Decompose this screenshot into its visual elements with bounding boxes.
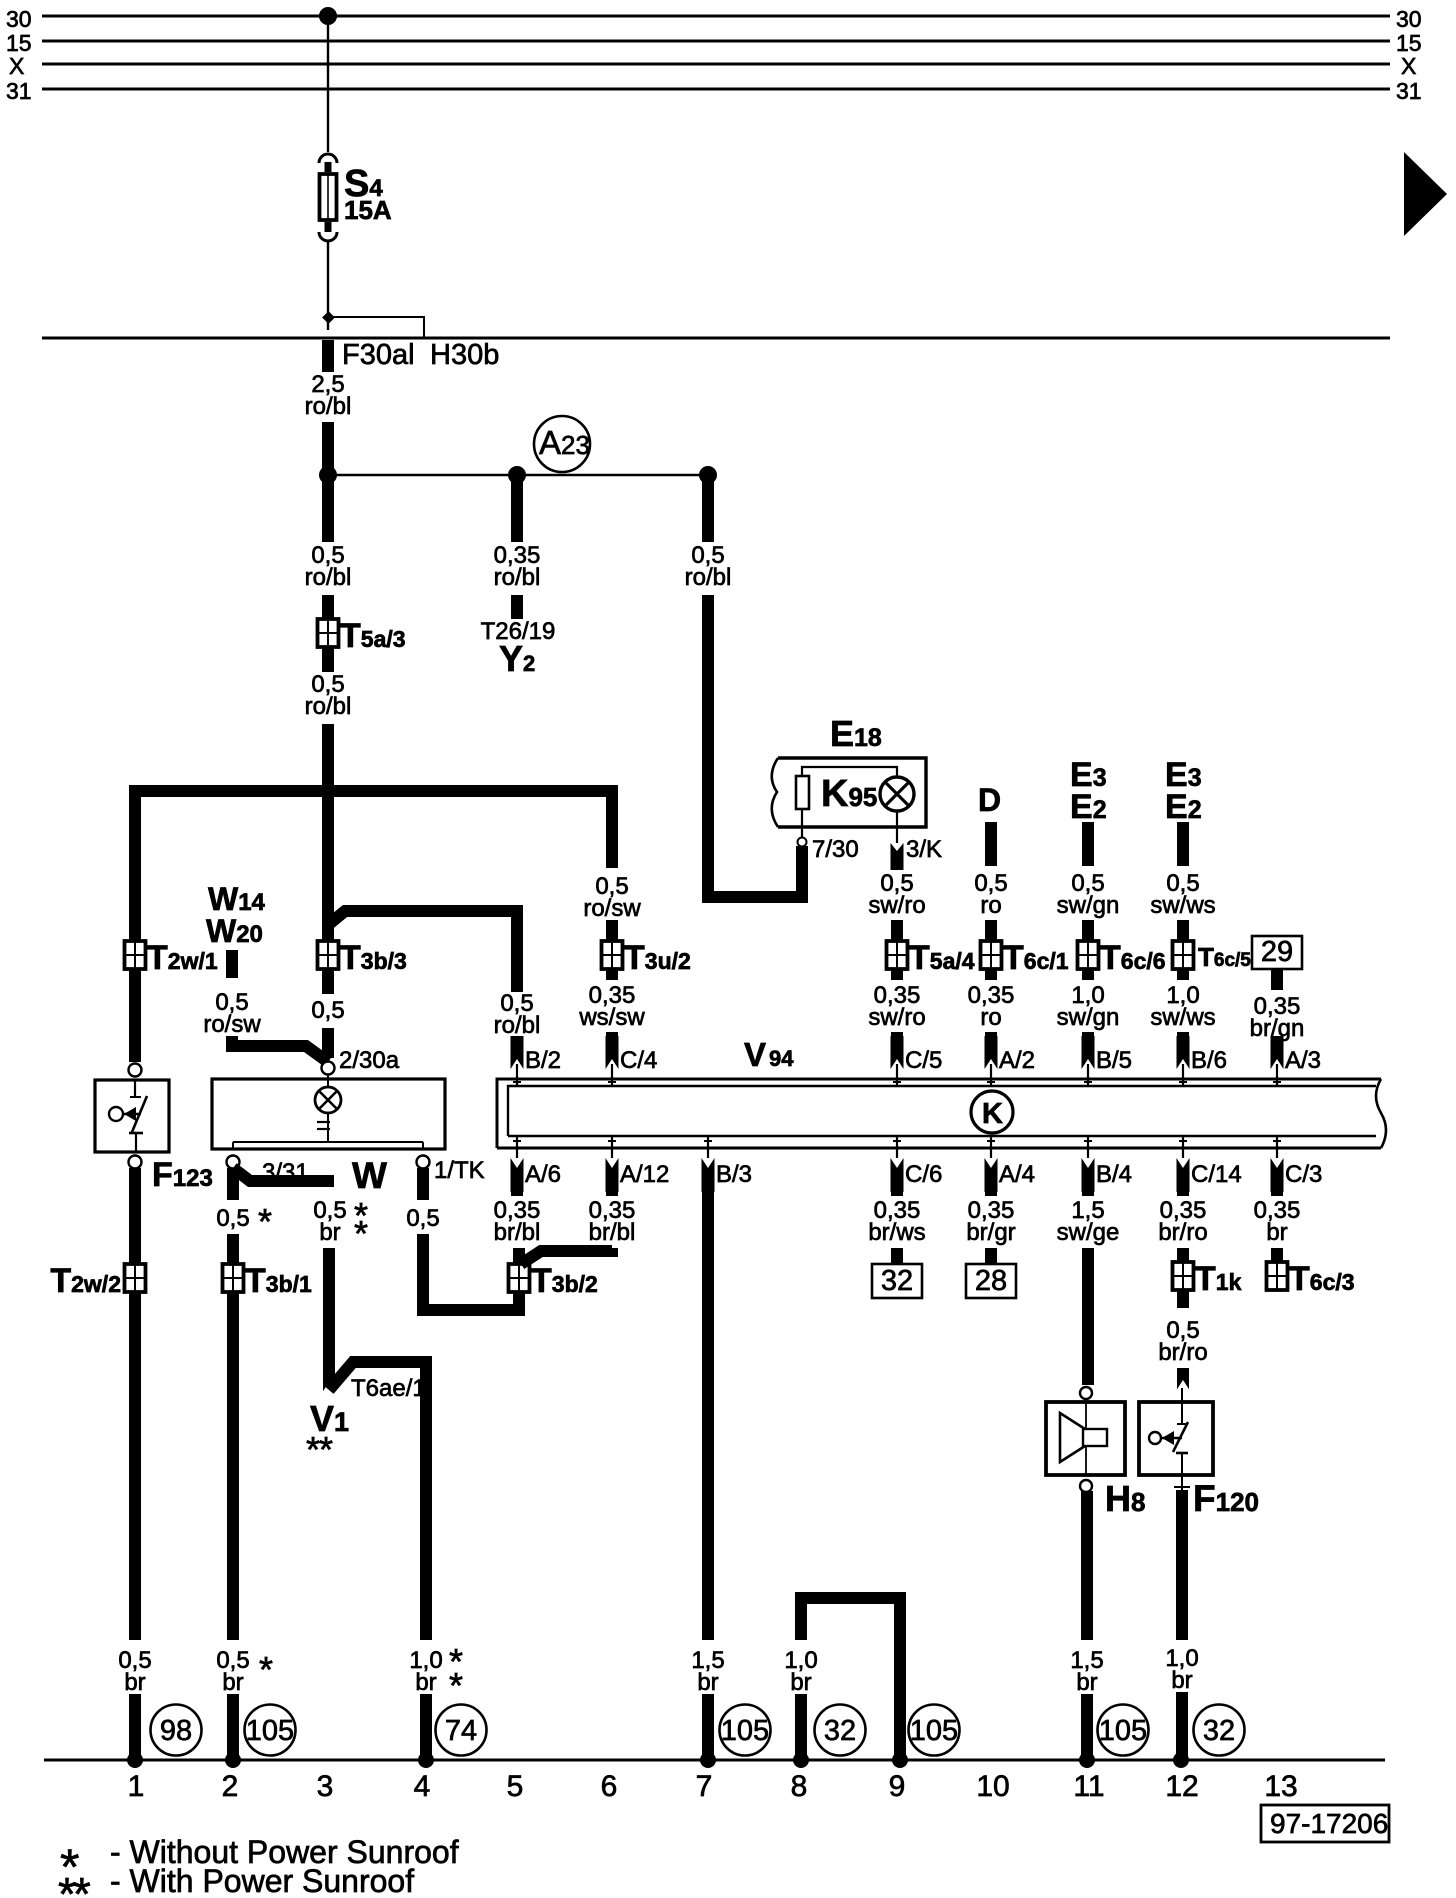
svg-text:105: 105	[1099, 1715, 1147, 1747]
wire to ground 1	[129, 1694, 141, 1760]
wire label 0,35 br/ws	[868, 1197, 925, 1246]
lamp unit W box	[212, 1079, 445, 1196]
svg-text:A/4: A/4	[999, 1161, 1035, 1188]
junction	[508, 466, 526, 484]
node line A23	[328, 474, 708, 476]
wire 2,5 ro/bl	[322, 422, 334, 475]
svg-text:5: 5	[507, 1770, 524, 1803]
wire A/4	[985, 1192, 997, 1196]
svg-text:0,5: 0,5	[311, 997, 344, 1024]
connector T6c/6	[1078, 939, 1166, 977]
wire 0,5 ro/bl	[322, 475, 334, 542]
wire	[322, 1028, 334, 1058]
wire W14/W20 stub	[226, 950, 238, 978]
svg-text:br/gr: br/gr	[966, 1219, 1015, 1246]
pin 3/K	[891, 811, 943, 870]
wire stub	[1177, 1290, 1189, 1308]
wire ground 8 to 9	[801, 1598, 900, 1760]
legend	[58, 1834, 459, 1898]
bus line 15	[6, 30, 1422, 56]
wire label 1,5 br	[1070, 1647, 1103, 1696]
wire label 0,5 br	[313, 1195, 368, 1254]
svg-text:*: *	[354, 1213, 368, 1254]
ground destination 105	[245, 1705, 296, 1756]
V94 pin C/14	[1177, 1136, 1242, 1192]
V94 pin A/3	[1271, 1036, 1322, 1086]
connector T6ae/1	[323, 1375, 426, 1402]
svg-text:C/6: C/6	[905, 1161, 942, 1188]
svg-text:A/12: A/12	[620, 1161, 669, 1188]
svg-text:B/2: B/2	[525, 1047, 561, 1074]
wire 0,5 ro/bl	[702, 475, 714, 542]
svg-text:*: *	[259, 1649, 273, 1690]
wire label 0,5 ro/sw	[203, 989, 261, 1038]
terminal numbers	[128, 1770, 1298, 1803]
wire label 0,5 br	[216, 1647, 273, 1696]
ground destination 98	[151, 1705, 202, 1756]
svg-text:8: 8	[791, 1770, 808, 1803]
node below fuse	[322, 311, 335, 324]
wire	[1177, 920, 1189, 947]
ground rail	[44, 1759, 1385, 1762]
svg-text:K: K	[982, 1098, 1003, 1130]
wire stub to Y2	[511, 595, 523, 619]
label E3 E2	[1165, 756, 1202, 826]
svg-text:30: 30	[1396, 6, 1422, 32]
connector T6c/5	[1173, 941, 1252, 972]
svg-text:C/4: C/4	[620, 1047, 657, 1074]
wire label 0,5 br	[118, 1647, 151, 1696]
svg-text:sw/gn: sw/gn	[1057, 1004, 1120, 1031]
wire 0,5 ro/bl	[322, 647, 334, 672]
svg-text:2: 2	[222, 1770, 239, 1803]
svg-text:br/ro: br/ro	[1158, 1219, 1207, 1246]
wire label 0,35 ro/bl	[494, 542, 541, 591]
wire label 1,0 sw/gn	[1057, 982, 1120, 1031]
wire stub	[985, 969, 997, 980]
wire label 0,5	[406, 1205, 439, 1232]
svg-text:31: 31	[1396, 78, 1422, 104]
svg-text:32: 32	[1203, 1715, 1235, 1747]
label E3 E2	[1070, 756, 1107, 826]
connector T2w/1	[125, 939, 218, 977]
svg-text:- With Power Sunroof: - With Power Sunroof	[110, 1863, 414, 1898]
wire	[1271, 1038, 1283, 1042]
illumination unit E18	[772, 713, 926, 827]
wire label 1,0 sw/ws	[1150, 982, 1215, 1031]
junction on bus 30	[319, 7, 337, 25]
wire label 0,35 ro	[968, 982, 1015, 1031]
svg-text:0,5: 0,5	[216, 1205, 249, 1232]
svg-text:br: br	[415, 1669, 436, 1696]
svg-text:X: X	[1401, 53, 1416, 79]
ground junction pin	[700, 1752, 716, 1768]
svg-text:ro: ro	[980, 1004, 1001, 1031]
bus line 31	[6, 78, 1422, 104]
wire label 0,5 sw/gn	[1057, 870, 1120, 919]
wire label 0,35 br/ro	[1158, 1197, 1207, 1246]
wire label 1,0 br	[784, 1647, 817, 1696]
wire label 0,5 ro/sw	[583, 873, 641, 922]
wire stub	[606, 969, 618, 980]
svg-text:A/2: A/2	[999, 1047, 1035, 1074]
junction	[699, 466, 717, 484]
svg-text:3: 3	[317, 1770, 334, 1803]
svg-text:B/4: B/4	[1096, 1161, 1132, 1188]
ground destination 32	[1194, 1705, 1245, 1756]
V94 pin A/12	[606, 1136, 670, 1192]
svg-text:30: 30	[6, 6, 32, 32]
ground junction pin	[1173, 1752, 1189, 1768]
pin 2/30a	[322, 1047, 400, 1075]
switch F120	[1139, 1380, 1259, 1519]
svg-text:7: 7	[696, 1770, 713, 1803]
connector T3u/2	[602, 939, 691, 977]
svg-text:H30b: H30b	[430, 339, 499, 371]
wire label 0,5 sw/ro	[868, 870, 925, 919]
branch to B/2	[328, 911, 517, 992]
wire stub	[1082, 969, 1094, 980]
svg-text:br: br	[319, 1219, 340, 1246]
svg-text:15A: 15A	[344, 195, 392, 225]
wire	[891, 1032, 903, 1038]
wire	[322, 724, 334, 947]
wire to T6ae/1	[323, 1248, 335, 1392]
internal wire	[802, 767, 897, 778]
ground junction pin	[892, 1752, 908, 1768]
svg-text:105: 105	[246, 1715, 294, 1747]
wire	[129, 969, 141, 1062]
svg-text:3/K: 3/K	[906, 836, 942, 863]
wire	[1081, 1694, 1093, 1760]
lamp K95	[821, 773, 914, 815]
svg-text:ro/sw: ro/sw	[203, 1011, 261, 1038]
wire A/6 down	[511, 1192, 523, 1196]
wire	[227, 1234, 239, 1640]
pin 3/31	[227, 1156, 309, 1187]
svg-text:B/3: B/3	[716, 1161, 752, 1188]
wire label 0,5 ro/bl	[305, 671, 352, 720]
wire F123 to T2w/2	[129, 1168, 141, 1640]
svg-text:C/3: C/3	[1285, 1161, 1322, 1188]
wire label 0,35 ws/sw	[578, 982, 645, 1031]
wire label 0,35 br	[1254, 1197, 1301, 1246]
pin 1/TK	[417, 1156, 485, 1185]
node 29	[1252, 936, 1302, 969]
V94 pin C/4	[606, 1036, 658, 1086]
wire 0,5 * down	[227, 1168, 239, 1200]
wire	[1082, 920, 1094, 947]
svg-text:br/bl: br/bl	[589, 1219, 636, 1246]
V94 pin C/5	[891, 1036, 943, 1086]
svg-text:105: 105	[910, 1715, 958, 1747]
svg-text:74: 74	[445, 1715, 477, 1747]
svg-text:br/bl: br/bl	[494, 1219, 541, 1246]
svg-text:br: br	[697, 1669, 718, 1696]
svg-text:ws/sw: ws/sw	[578, 1004, 645, 1031]
wire to ground 4	[420, 1694, 432, 1760]
wire label 0,5 br/ro	[1158, 1317, 1207, 1366]
label T26/19 Y2	[481, 618, 556, 679]
svg-text:ro/sw: ro/sw	[583, 895, 641, 922]
svg-text:sw/ro: sw/ro	[868, 1004, 925, 1031]
svg-text:br: br	[790, 1669, 811, 1696]
ground destination 105	[909, 1705, 960, 1756]
wire label 0,5 ro/bl	[685, 542, 732, 591]
drawing number 97-17206	[1261, 1805, 1389, 1842]
wire fuse to node	[327, 240, 329, 330]
svg-text:0,5: 0,5	[406, 1205, 439, 1232]
svg-text:D: D	[978, 782, 1001, 818]
wire label 1,5 br	[691, 1647, 724, 1696]
wire	[891, 1248, 903, 1264]
svg-text:br: br	[222, 1669, 243, 1696]
svg-text:A/3: A/3	[1285, 1047, 1321, 1074]
svg-text:32: 32	[881, 1265, 913, 1297]
svg-text:br: br	[1266, 1219, 1287, 1246]
wire	[322, 595, 334, 627]
svg-text:97-17206: 97-17206	[1270, 1808, 1388, 1839]
svg-text:sw/ge: sw/ge	[1057, 1219, 1120, 1246]
node 32	[872, 1264, 922, 1298]
bus line F30al/H30b	[42, 338, 1390, 371]
wire stub	[1177, 969, 1189, 980]
branch 0,5 br **	[233, 1168, 334, 1181]
wire stub	[891, 969, 903, 980]
V94 pin A/4	[985, 1136, 1036, 1192]
wire label 0,35 br/gr	[966, 1197, 1015, 1246]
horn H8	[1046, 1387, 1145, 1519]
ground destination 32	[815, 1705, 866, 1756]
svg-text:ro/bl: ro/bl	[305, 564, 352, 591]
wire	[985, 920, 997, 947]
wire	[606, 920, 618, 947]
svg-text:4: 4	[414, 1770, 431, 1803]
wire stub	[1271, 969, 1283, 990]
svg-text:ro: ro	[980, 892, 1001, 919]
wire 0,35 ro/bl	[511, 475, 523, 542]
V94 pin B/2	[511, 1036, 562, 1086]
fuse S4 15A	[319, 154, 392, 241]
connector T3b/1	[223, 1262, 313, 1300]
svg-text:sw/ws: sw/ws	[1150, 1004, 1215, 1031]
svg-text:**: **	[58, 1868, 91, 1898]
switch F123	[95, 1064, 213, 1195]
V94 pin C/6	[891, 1136, 943, 1192]
dashed branch to H30b	[328, 317, 424, 337]
svg-text:7/30: 7/30	[812, 836, 859, 863]
svg-text:31: 31	[6, 78, 32, 104]
svg-text:12: 12	[1165, 1770, 1198, 1803]
wire label 0,35 br/bl	[589, 1197, 636, 1246]
V94 pin B/6	[1177, 1036, 1228, 1086]
svg-text:ro/bl: ro/bl	[494, 564, 541, 591]
svg-text:105: 105	[721, 1715, 769, 1747]
svg-text:ro/bl: ro/bl	[494, 1012, 541, 1039]
wire label 0,5 ro/bl	[494, 990, 541, 1039]
connector T6c/1	[981, 939, 1069, 977]
wire	[606, 1032, 618, 1038]
wire label 0,5	[216, 1201, 272, 1242]
ground junction pin	[793, 1752, 809, 1768]
svg-text:*: *	[449, 1665, 463, 1706]
wire	[1082, 1032, 1094, 1038]
wire 2,5 ro/bl stub	[322, 340, 334, 372]
wire	[891, 920, 903, 947]
svg-text:X: X	[9, 53, 24, 79]
connector T6c/3	[1267, 1260, 1355, 1298]
svg-text:29: 29	[1261, 936, 1293, 968]
svg-text:br/ws: br/ws	[868, 1219, 925, 1246]
ground destination 105	[720, 1705, 771, 1756]
V94 pin A/6	[511, 1136, 562, 1192]
bus line X	[9, 53, 1416, 79]
connector T3b/2	[509, 1262, 598, 1300]
node label A23	[534, 416, 590, 472]
junction	[319, 466, 337, 484]
connector T2w/2	[50, 1262, 145, 1300]
V94 pin B/4	[1082, 1136, 1133, 1192]
wire label 0,35 br/bl	[494, 1197, 541, 1246]
svg-text:6: 6	[601, 1770, 618, 1803]
pin 7/30	[798, 809, 859, 863]
wire label 2,5 ro/bl	[305, 371, 352, 420]
wire	[1177, 1032, 1189, 1038]
wire to H8	[1082, 1248, 1094, 1385]
svg-text:B/5: B/5	[1096, 1047, 1132, 1074]
svg-text:2/30a: 2/30a	[339, 1047, 400, 1074]
wire	[985, 1248, 997, 1264]
wire stub	[1082, 822, 1094, 866]
svg-text:T6ae/1: T6ae/1	[351, 1375, 426, 1402]
svg-text:1/TK: 1/TK	[434, 1157, 485, 1184]
wire	[1177, 1248, 1189, 1264]
svg-text:ro/bl: ro/bl	[305, 693, 352, 720]
distribution wire	[135, 791, 612, 947]
ground junction pin	[418, 1752, 434, 1768]
wire to F120	[1177, 1368, 1189, 1390]
svg-text:sw/gn: sw/gn	[1057, 892, 1120, 919]
ground junction pin	[225, 1752, 241, 1768]
V94 pin B/5	[1082, 1036, 1133, 1086]
wire 1/TK	[417, 1168, 429, 1200]
wire label 0,5 sw/ws	[1150, 870, 1215, 919]
svg-text:11: 11	[1073, 1770, 1104, 1803]
svg-text:*: *	[258, 1201, 272, 1242]
wire label 0,5 ro/bl	[305, 542, 352, 591]
svg-text:sw/ro: sw/ro	[868, 892, 925, 919]
wire label 1,0 br	[409, 1641, 463, 1706]
wire stub	[1177, 822, 1189, 866]
svg-text:98: 98	[160, 1715, 192, 1747]
svg-text:br: br	[1076, 1669, 1097, 1696]
label V1	[306, 1398, 349, 1470]
wire label 0,35 br/gn	[1250, 993, 1305, 1042]
V94 pin C/3	[1271, 1136, 1323, 1192]
wire label 1,0 br	[1165, 1645, 1198, 1694]
V94 relay symbol K	[971, 1091, 1013, 1133]
wire label 1,5 sw/ge	[1057, 1197, 1120, 1246]
svg-text:A23: A23	[539, 424, 590, 461]
wire to K95 pin 7/30	[708, 595, 802, 897]
wire F120 to ground 12	[1176, 1490, 1188, 1640]
wire A/12 down	[606, 1192, 618, 1196]
connector T3b/3	[318, 939, 407, 977]
wire V1 feed	[329, 1362, 426, 1640]
ground junction pin	[1079, 1752, 1095, 1768]
svg-text:W: W	[352, 1155, 387, 1196]
wire 0,5	[322, 969, 334, 994]
ground junction pin	[127, 1752, 143, 1768]
lamp in W	[315, 1074, 341, 1143]
bus line 30	[6, 6, 1422, 32]
wire	[985, 1032, 997, 1038]
control module V94	[497, 1036, 1386, 1148]
svg-text:F30al: F30al	[342, 339, 415, 371]
wire	[423, 1234, 519, 1310]
wire elbow to T3b/2	[521, 1248, 612, 1264]
wire C/6	[891, 1192, 903, 1196]
connector T5a/3	[318, 617, 406, 655]
continuation arrow	[1404, 152, 1447, 236]
V94 pin B/3	[702, 1136, 753, 1192]
V94 pin A/2	[985, 1036, 1036, 1086]
wire label 0,5	[311, 997, 344, 1024]
wire C/3	[1271, 1192, 1283, 1196]
wire to ground 2	[227, 1694, 239, 1760]
wire B/3 to ground 7	[702, 1190, 714, 1640]
connector T5a/4	[887, 939, 975, 977]
svg-text:9: 9	[889, 1770, 906, 1803]
wire to 2/30a	[232, 1036, 328, 1062]
wire H8 to ground 11	[1081, 1491, 1093, 1640]
ground destination 74	[436, 1705, 487, 1756]
svg-text:28: 28	[975, 1265, 1007, 1297]
wire B/4	[1082, 1192, 1094, 1196]
svg-text:br/ro: br/ro	[1158, 1339, 1207, 1366]
svg-text:**: **	[306, 1429, 333, 1470]
svg-text:10: 10	[976, 1770, 1009, 1803]
svg-text:C/14: C/14	[1191, 1161, 1242, 1188]
ground destination 105	[1098, 1705, 1149, 1756]
wire to T3b/2	[513, 1248, 525, 1264]
svg-text:sw/ws: sw/ws	[1150, 892, 1215, 919]
svg-text:32: 32	[824, 1715, 856, 1747]
wire D stub	[985, 822, 997, 866]
svg-text:br: br	[124, 1669, 145, 1696]
wire	[1176, 1692, 1188, 1760]
svg-text:ro/bl: ro/bl	[685, 564, 732, 591]
svg-text:B/6: B/6	[1191, 1047, 1227, 1074]
svg-text:C/5: C/5	[905, 1047, 942, 1074]
connector T1k	[1173, 1260, 1242, 1298]
wire label 0,5 ro	[974, 870, 1007, 919]
label W14 W20	[206, 881, 266, 949]
wire bus30 to fuse S4	[327, 16, 329, 152]
svg-text:13: 13	[1264, 1770, 1297, 1803]
wire	[1271, 1248, 1283, 1264]
svg-text:A/6: A/6	[525, 1161, 561, 1188]
wire	[511, 1036, 523, 1042]
wire label 0,35 sw/ro	[868, 982, 925, 1031]
wire C/14	[1177, 1192, 1189, 1196]
svg-text:ro/bl: ro/bl	[305, 393, 352, 420]
resistor in E18	[796, 776, 809, 809]
node 28	[966, 1264, 1016, 1298]
svg-text:1: 1	[128, 1770, 145, 1803]
svg-text:br: br	[1171, 1667, 1192, 1694]
wire	[702, 1694, 714, 1760]
